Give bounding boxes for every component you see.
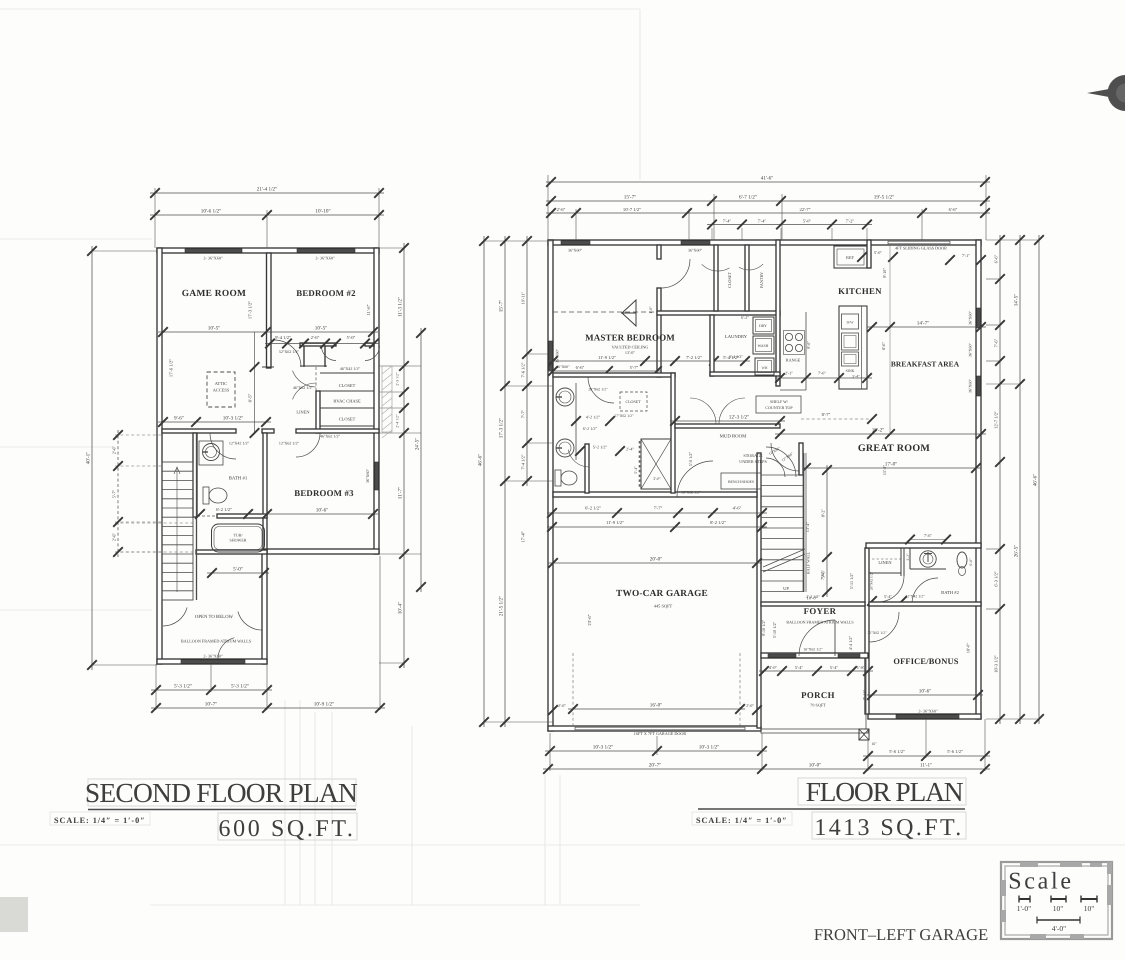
underline floor plan <box>698 808 965 810</box>
svg-text:5'-6 1/2": 5'-6 1/2" <box>889 749 905 754</box>
master sink a <box>556 388 574 406</box>
garage door dashed b <box>739 653 741 726</box>
fridge box <box>834 246 867 268</box>
linen door swing upper <box>293 371 317 387</box>
master door swing <box>661 259 690 288</box>
dim right col a <box>994 235 1005 724</box>
svg-text:11'-3 1/2": 11'-3 1/2" <box>398 297 404 317</box>
svg-text:4'-0": 4'-0" <box>769 665 778 670</box>
dim right col inner <box>398 243 409 668</box>
svg-text:10'-5": 10'-5" <box>315 326 328 332</box>
svg-text:OPEN TO BELOW: OPEN TO BELOW <box>195 614 234 620</box>
svg-text:9'-10": 9'-10" <box>882 268 887 278</box>
svg-text:36"X60": 36"X60" <box>556 365 570 369</box>
dim breakfast 14-7 <box>867 321 986 332</box>
great room door wall <box>799 443 803 475</box>
svg-text:6'-6": 6'-6" <box>949 207 958 212</box>
svg-text:6'-6": 6'-6" <box>994 255 999 264</box>
svg-text:FLOOR PLAN: FLOOR PLAN <box>806 776 964 807</box>
svg-text:7'-4 1/2": 7'-4 1/2" <box>521 454 526 469</box>
svg-text:OFFICE/BONUS: OFFICE/BONUS <box>893 657 958 666</box>
svg-text:5'-2 1/2": 5'-2 1/2" <box>593 445 608 450</box>
office north wall <box>869 602 981 606</box>
bath1 sink <box>203 444 220 461</box>
svg-text:32"X42 1/2": 32"X42 1/2" <box>905 595 925 599</box>
svg-text:10'-10": 10'-10" <box>315 209 330 215</box>
svg-text:46'-6": 46'-6" <box>478 454 484 467</box>
dim garage row2 <box>547 520 767 532</box>
svg-text:RANGE: RANGE <box>786 358 801 363</box>
dim top row3 <box>546 207 990 218</box>
exterior wall right (first floor) <box>976 240 981 719</box>
svg-text:2'-1": 2'-1" <box>785 371 793 376</box>
hall north wall segment B <box>300 343 336 346</box>
underline second floor plan <box>88 809 356 811</box>
svg-text:5'-4": 5'-4" <box>830 665 839 670</box>
dim bedroom3 10-6 <box>262 508 378 519</box>
svg-text:17'-6 1/2": 17'-6 1/2" <box>169 359 174 377</box>
dashed dim 8-7 <box>801 418 872 420</box>
svg-text:5'-11 1/2": 5'-11 1/2" <box>849 573 854 590</box>
svg-text:11'-1": 11'-1" <box>920 763 932 769</box>
wall stairs to bath1 <box>193 433 197 517</box>
wall foyer/office divider <box>865 548 869 714</box>
atrium arc right <box>238 612 262 631</box>
title box second floor plan <box>88 779 356 806</box>
dim top 21-4 <box>150 187 384 198</box>
hvac chase wall <box>320 407 374 409</box>
svg-text:CLOSET: CLOSET <box>339 417 356 422</box>
window master left 36x60 <box>549 341 553 371</box>
dim garage 20-0 <box>548 557 762 568</box>
svg-text:2'-3": 2'-3" <box>906 553 910 560</box>
svg-text:8'-2 1/2": 8'-2 1/2" <box>710 520 726 525</box>
master bath door swing <box>588 377 614 403</box>
svg-text:REF: REF <box>846 255 854 260</box>
svg-text:11'-7": 11'-7" <box>398 487 404 499</box>
dim top row2 <box>150 209 384 220</box>
hall stub wall <box>262 366 274 368</box>
svg-text:LINEN: LINEN <box>296 410 310 415</box>
svg-text:WASH: WASH <box>758 344 769 348</box>
svg-text:6'-0": 6'-0" <box>969 558 973 566</box>
dim master row <box>548 355 750 366</box>
master sink b <box>556 439 574 457</box>
dim interior 10-5 10-5 <box>158 326 378 337</box>
svg-text:7'-6": 7'-6" <box>924 533 932 538</box>
dim right col outer <box>415 328 426 592</box>
svg-text:46"X62 1/2": 46"X62 1/2" <box>293 385 314 390</box>
closet bifold right leaf <box>365 346 380 361</box>
bedroom3 door swing <box>296 433 320 457</box>
dim right col b <box>1014 235 1025 724</box>
svg-text:10'-7 1/2": 10'-7 1/2" <box>623 207 641 212</box>
svg-text:12"X84": 12"X84" <box>781 451 795 462</box>
svg-text:10'-3 1/2": 10'-3 1/2" <box>994 655 999 673</box>
dishwasher <box>842 314 859 329</box>
garage north wall <box>553 492 757 497</box>
svg-text:14'-5": 14'-5" <box>1014 294 1020 307</box>
svg-text:6'-2": 6'-2" <box>741 315 749 320</box>
great room door swing <box>771 443 799 471</box>
bath2 hall door swing <box>878 576 904 602</box>
dim bottom row2 <box>543 763 990 774</box>
svg-text:D/W: D/W <box>847 321 855 325</box>
tub room south wall <box>196 550 267 554</box>
foyer sidelight window b <box>838 654 860 657</box>
svg-text:9'-6": 9'-6" <box>174 416 184 422</box>
svg-text:12"X42 1/2": 12"X42 1/2" <box>229 441 250 446</box>
svg-text:8'-5": 8'-5" <box>248 393 253 402</box>
svg-text:BATH #1: BATH #1 <box>229 476 248 482</box>
dim top row2 <box>546 195 990 206</box>
svg-text:5'-3 1/2": 5'-3 1/2" <box>231 684 249 690</box>
svg-text:21'-4 1/2": 21'-4 1/2" <box>257 187 278 193</box>
svg-text:7'-6": 7'-6" <box>994 339 999 348</box>
svg-text:PORCH: PORCH <box>801 690 835 700</box>
svg-text:1'-0": 1'-0" <box>1017 904 1031 913</box>
svg-text:17'-4": 17'-4" <box>521 531 526 542</box>
svg-text:5'-7": 5'-7" <box>112 490 117 499</box>
front door swing <box>799 620 835 656</box>
exterior wall left (first floor) <box>548 240 553 731</box>
dim right col c <box>1033 235 1044 724</box>
dim tub 5-0 <box>207 567 269 578</box>
svg-text:2- 36"X60": 2- 36"X60" <box>203 654 223 659</box>
garage door swing <box>677 461 713 497</box>
svg-text:2- 36"X60": 2- 36"X60" <box>918 709 938 714</box>
shelf with counter top box <box>756 396 801 413</box>
svg-text:10'-3 1/2": 10'-3 1/2" <box>593 745 614 751</box>
svg-text:10'-7": 10'-7" <box>205 702 218 708</box>
pantry door arc <box>739 264 763 270</box>
window atrium 2-36x60 <box>181 660 245 664</box>
svg-text:41'-6": 41'-6" <box>761 176 774 182</box>
svg-text:10'-3 1/2": 10'-3 1/2" <box>223 416 244 422</box>
stair alcove door arc small <box>766 458 785 477</box>
svg-text:16'-0": 16'-0" <box>650 703 663 709</box>
svg-text:5'-10 1/2": 5'-10 1/2" <box>772 621 777 638</box>
svg-text:5'-6 1/2": 5'-6 1/2" <box>947 749 963 754</box>
svg-text:22'-7": 22'-7" <box>799 207 810 212</box>
door hall A swing <box>274 340 301 367</box>
svg-text:4'-0": 4'-0" <box>1052 924 1066 933</box>
hall south stub wall <box>300 365 327 367</box>
extension lines right side left plan <box>379 365 421 367</box>
svg-text:24'-5": 24'-5" <box>415 438 421 451</box>
bath2 door swing <box>912 578 938 604</box>
svg-text:1'-0": 1'-0" <box>648 306 653 314</box>
window master 36x60 b <box>681 241 710 245</box>
svg-text:BENCH/SHOES: BENCH/SHOES <box>728 480 754 484</box>
svg-text:10'-6": 10'-6" <box>919 689 932 695</box>
svg-text:15'-7": 15'-7" <box>624 195 637 201</box>
window breakfast right b <box>977 376 981 396</box>
bath2 walls <box>903 548 905 576</box>
svg-text:BEDROOM #3: BEDROOM #3 <box>294 488 354 498</box>
svg-text:9'-10 1/2": 9'-10 1/2" <box>761 619 766 636</box>
svg-text:BREAKFAST AREA: BREAKFAST AREA <box>891 360 960 369</box>
svg-text:7'-6": 7'-6" <box>818 371 826 376</box>
svg-text:600 SQ.FT.: 600 SQ.FT. <box>219 816 356 842</box>
svg-text:12'-7 1/2": 12'-7 1/2" <box>994 411 999 429</box>
exterior wall bottom bedroom3 <box>267 549 379 554</box>
dim bottom row1 <box>151 684 272 695</box>
svg-text:8'-2": 8'-2" <box>821 509 826 518</box>
svg-text:6'-7 1/2": 6'-7 1/2" <box>739 195 757 201</box>
garage door opening <box>575 727 745 730</box>
scale legend box <box>1001 862 1112 939</box>
svg-text:FRONT–LEFT GARAGE: FRONT–LEFT GARAGE <box>814 925 988 944</box>
closet wall 3 <box>320 425 374 427</box>
svg-text:46"X42 1/2": 46"X42 1/2" <box>340 366 361 371</box>
master east wall upper <box>657 245 661 259</box>
exterior wall office bottom <box>868 714 981 719</box>
corridor south wall east segment <box>296 429 379 433</box>
svg-text:5'-0": 5'-0" <box>233 567 243 573</box>
svg-text:16": 16" <box>871 742 877 746</box>
svg-text:46'-6": 46'-6" <box>1033 474 1039 487</box>
great room south wall <box>866 543 981 548</box>
dim top row4 <box>707 218 872 229</box>
mud door arc a <box>690 398 716 424</box>
bath1 toilet <box>203 487 209 504</box>
office door swing <box>869 612 899 642</box>
dim master row2 <box>548 365 662 376</box>
linen shelf dashed <box>872 558 901 560</box>
laundry west wall <box>710 315 714 376</box>
svg-text:BALLOON FRAMED ATRIUM WALLS: BALLOON FRAMED ATRIUM WALLS <box>181 639 252 644</box>
svg-text:36"X60": 36"X60" <box>568 248 583 253</box>
dim bottom row2 <box>151 702 385 713</box>
extension lines left cols right plan <box>484 240 553 242</box>
porch slab edge <box>761 729 868 733</box>
porch column <box>859 729 869 740</box>
svg-text:19'-2": 19'-2" <box>872 428 885 434</box>
svg-text:36"X62 1/2": 36"X62 1/2" <box>681 491 701 495</box>
svg-text:4'-4 1/2": 4'-4 1/2" <box>848 635 853 650</box>
porch east edge <box>865 658 867 729</box>
exterior wall right atrium <box>262 549 267 664</box>
dashed dim col left of stairs <box>115 434 162 436</box>
master east wall lower <box>657 288 661 377</box>
exterior wall bottom atrium <box>157 659 267 664</box>
window master 36x60 a <box>561 241 590 245</box>
dim top 41-6 <box>546 176 990 187</box>
closet door arc <box>702 264 730 271</box>
bath1 opening dashed <box>197 515 217 517</box>
svg-text:12"X62 1/2": 12"X62 1/2" <box>279 441 300 446</box>
dim bottom porch row <box>863 749 990 761</box>
scale bar 2 <box>1051 898 1066 900</box>
dim bottom garage row <box>545 745 767 756</box>
exterior wall top (second floor) <box>157 248 379 253</box>
svg-text:1'-8": 1'-8" <box>857 665 866 670</box>
attic access hatch <box>207 372 235 407</box>
svg-text:36"X60": 36"X60" <box>365 469 370 484</box>
svg-text:10'-6": 10'-6" <box>316 508 329 514</box>
svg-text:10'-5": 10'-5" <box>208 326 221 332</box>
svg-text:52"X62 1/2": 52"X62 1/2" <box>279 349 300 354</box>
mud room west wall <box>671 373 675 493</box>
north compass (cut off at edge) <box>1087 75 1125 111</box>
linen door swing lower <box>293 383 317 399</box>
svg-text:21'-5 1/2": 21'-5 1/2" <box>499 596 505 617</box>
atrium arc left <box>163 608 187 627</box>
svg-text:SCALE: 1/4″ = 1′-0″: SCALE: 1/4″ = 1′-0″ <box>54 816 146 825</box>
svg-text:2- 36"X60": 2- 36"X60" <box>315 256 335 261</box>
svg-text:SHELF W/: SHELF W/ <box>770 399 789 404</box>
svg-text:2'-6": 2'-6" <box>557 207 566 212</box>
svg-text:26"X42 1/2": 26"X42 1/2" <box>870 571 874 590</box>
svg-text:PANTRY: PANTRY <box>759 272 764 288</box>
mud room north wall <box>675 424 780 428</box>
stair landing dashed lines <box>115 522 196 524</box>
svg-text:23'-6": 23'-6" <box>587 614 592 625</box>
svg-text:MUD ROOM: MUD ROOM <box>720 434 748 440</box>
svg-text:SECOND FLOOR PLAN: SECOND FLOOR PLAN <box>85 777 358 808</box>
svg-text:2'-0": 2'-0" <box>746 703 754 708</box>
svg-text:46"X62 1/2": 46"X62 1/2" <box>320 434 341 439</box>
svg-text:6'-6": 6'-6" <box>576 365 585 370</box>
svg-text:11'-6": 11'-6" <box>366 304 371 315</box>
svg-text:7'-2": 7'-2" <box>846 218 855 223</box>
svg-text:4'-6": 4'-6" <box>733 506 742 511</box>
svg-text:5'-4": 5'-4" <box>884 594 892 599</box>
island sink <box>842 333 859 350</box>
extension lines left side <box>92 250 157 252</box>
dim great 17-0 <box>801 462 981 473</box>
dim office 10-6 <box>867 689 983 700</box>
svg-text:10'-9 1/2": 10'-9 1/2" <box>314 702 335 708</box>
dim great room 19-2 <box>775 428 986 439</box>
svg-text:TWO-CAR GARAGE: TWO-CAR GARAGE <box>616 589 708 599</box>
svg-text:HALF WALL: HALF WALL <box>806 551 811 574</box>
svg-text:2- 36"X60": 2- 36"X60" <box>203 256 223 261</box>
svg-text:6'-3 1/2": 6'-3 1/2" <box>994 571 999 587</box>
svg-text:VAULTED CEILING: VAULTED CEILING <box>612 345 649 350</box>
dim left col 46-6 <box>478 236 489 727</box>
hall dashed divider <box>315 367 317 391</box>
dim interior 9-6 10-3 <box>158 416 271 427</box>
master bath north wall <box>553 373 675 377</box>
svg-text:15'-7": 15'-7" <box>499 300 505 313</box>
svg-text:CLOSET: CLOSET <box>727 272 732 288</box>
svg-text:445 SQFT: 445 SQFT <box>654 604 673 609</box>
svg-text:2'-4 1/2": 2'-4 1/2" <box>396 414 400 428</box>
svg-text:36"X60": 36"X60" <box>968 379 973 394</box>
dryer box <box>753 317 774 334</box>
svg-text:2'-3 1/2": 2'-3 1/2" <box>396 372 400 386</box>
svg-text:20'-7": 20'-7" <box>649 763 662 769</box>
sliding glass door <box>888 241 950 244</box>
svg-text:7'-4": 7'-4" <box>723 218 732 223</box>
svg-text:10": 10" <box>1053 904 1064 913</box>
exterior wall left (second floor) <box>157 248 162 664</box>
second floor plan group <box>86 187 426 713</box>
exterior wall right (second floor) <box>374 248 379 554</box>
svg-text:LINEN: LINEN <box>878 560 892 565</box>
svg-text:COUNTER TOP: COUNTER TOP <box>765 405 793 410</box>
svg-text:4'-2 1/2": 4'-2 1/2" <box>586 415 601 420</box>
svg-text:17'-3 1/2": 17'-3 1/2" <box>499 418 505 439</box>
svg-text:20"X62 1/2": 20"X62 1/2" <box>588 388 608 392</box>
hall north wall segment C <box>365 343 374 346</box>
master toilet <box>555 470 561 486</box>
svg-text:2'-0": 2'-0" <box>558 703 566 708</box>
svg-text:18'-0": 18'-0" <box>966 643 971 653</box>
kitchen island <box>839 306 867 389</box>
svg-text:79 SQFT: 79 SQFT <box>810 703 826 708</box>
svg-text:10'-11": 10'-11" <box>521 291 526 304</box>
svg-text:Scale: Scale <box>1008 869 1073 895</box>
svg-text:SINK: SINK <box>846 369 855 373</box>
extension lines bottom left plan <box>155 664 157 710</box>
svg-text:7'-6 1/2": 7'-6 1/2" <box>521 362 526 377</box>
svg-text:5'-4": 5'-4" <box>795 665 804 670</box>
scale bar 1 <box>1019 898 1030 900</box>
title box floor plan <box>798 778 966 805</box>
dim kitchen counters <box>775 373 872 383</box>
bath2 pedestal sink <box>957 552 967 568</box>
svg-text:5'-0 1/2": 5'-0 1/2" <box>688 451 693 466</box>
svg-text:8'-6": 8'-6" <box>881 342 886 350</box>
dim bath2 7-6 <box>910 539 946 541</box>
svg-text:7'-7": 7'-7" <box>521 410 526 419</box>
svg-text:10": 10" <box>1084 904 1095 913</box>
svg-text:26'-5": 26'-5" <box>1014 545 1020 558</box>
foyer sidelight window a <box>768 654 796 657</box>
svg-text:7'-7": 7'-7" <box>654 506 663 511</box>
master ceiling break dashed <box>553 311 657 313</box>
corridor south wall mid segment <box>262 429 274 433</box>
extension lines top left plan <box>154 188 156 248</box>
svg-text:CLOSET: CLOSET <box>625 399 641 404</box>
dim dashed stairs col <box>112 430 123 557</box>
closet wall 2 <box>320 390 374 392</box>
title 1413 sqft <box>812 812 966 839</box>
svg-text:13'-4": 13'-4" <box>805 522 810 532</box>
svg-text:2'-2 1/2": 2'-2 1/2" <box>806 594 820 599</box>
svg-text:3'-0": 3'-0" <box>653 476 661 481</box>
front door leaf <box>834 620 836 656</box>
first floor plan group <box>478 175 1044 774</box>
svg-text:12'-3 1/2": 12'-3 1/2" <box>729 415 750 421</box>
svg-text:BALLOON FRAMED ATRIUM WALLS: BALLOON FRAMED ATRIUM WALLS <box>786 620 853 625</box>
tub shower <box>212 524 265 552</box>
dim left col c <box>521 236 532 486</box>
window breakfast right a <box>977 308 981 328</box>
title 600 sqft <box>218 813 357 840</box>
svg-text:10'-0": 10'-0" <box>809 763 822 769</box>
vanity counter line <box>575 383 577 460</box>
door jamb stub b <box>324 344 326 368</box>
svg-text:9'-4 1/2": 9'-4 1/2" <box>275 335 291 340</box>
foyer south wall <box>761 653 868 658</box>
svg-text:2'-6": 2'-6" <box>112 533 117 542</box>
svg-text:SCALE: 1/4″ = 1′-0″: SCALE: 1/4″ = 1′-0″ <box>696 816 788 825</box>
scale bar long <box>1037 919 1080 921</box>
kitchen west wall <box>776 240 780 386</box>
svg-text:16FT X 7FT GARAGE DOOR: 16FT X 7FT GARAGE DOOR <box>634 731 687 736</box>
svg-text:16"X62 1/2": 16"X62 1/2" <box>803 648 823 652</box>
wall bath1 to bedroom3 <box>263 433 267 549</box>
svg-text:7'-1": 7'-1" <box>962 253 970 258</box>
exterior wall garage bottom <box>548 726 761 731</box>
wall hall to closet column <box>316 391 320 433</box>
stair alcove door arc <box>766 447 796 477</box>
ceiling fan symbol <box>622 300 636 326</box>
